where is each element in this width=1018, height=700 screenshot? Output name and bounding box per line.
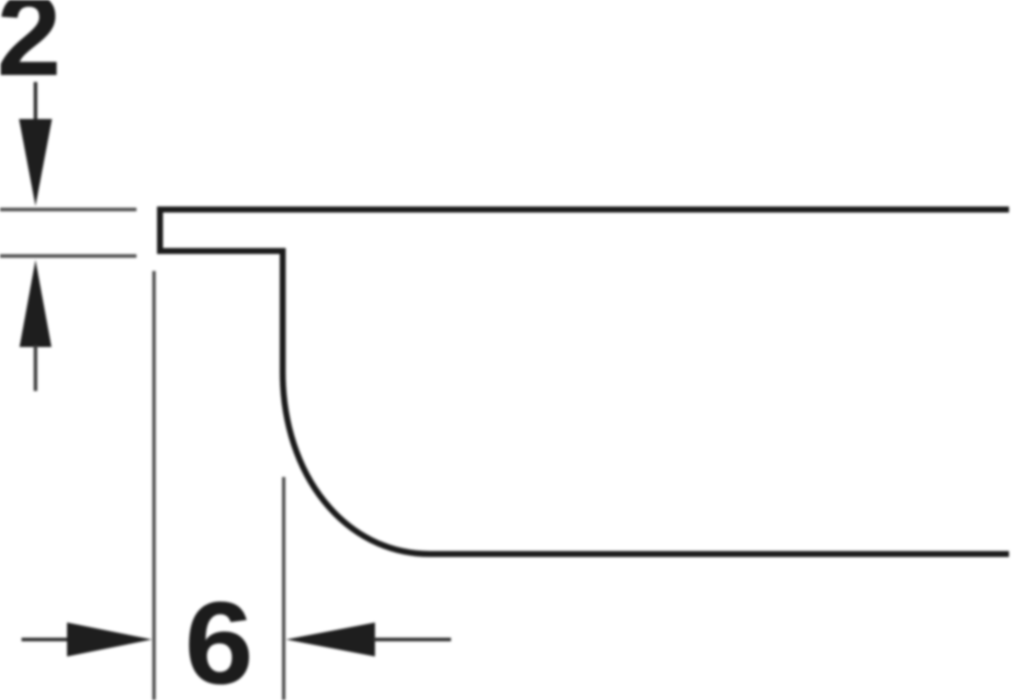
dimension arrow right-pointing (for 6) shaft — [22, 638, 70, 642]
dimension arrow left-pointing (for 6) head — [286, 623, 375, 657]
dimension arrow up (for 2) shaft — [34, 345, 38, 391]
svg-text:2: 2 — [0, 0, 61, 100]
extension line vertical right (for 6) — [282, 477, 285, 700]
dimension arrow down (for 2) head — [19, 119, 52, 206]
dimension arrow up (for 2) head — [20, 260, 52, 347]
extension line vertical left (for 6) — [152, 271, 155, 700]
extension line top (thin, upper) — [0, 208, 137, 211]
dimension arrow left-pointing (for 6) shaft — [373, 638, 451, 642]
dimension arrow right-pointing (for 6) head — [67, 623, 152, 657]
worktop edge profile outline — [160, 210, 1009, 555]
dimension arrow down (for 2) shaft — [34, 82, 38, 122]
extension line top (thin, lower) — [0, 254, 137, 257]
svg-text:6: 6 — [185, 578, 254, 700]
